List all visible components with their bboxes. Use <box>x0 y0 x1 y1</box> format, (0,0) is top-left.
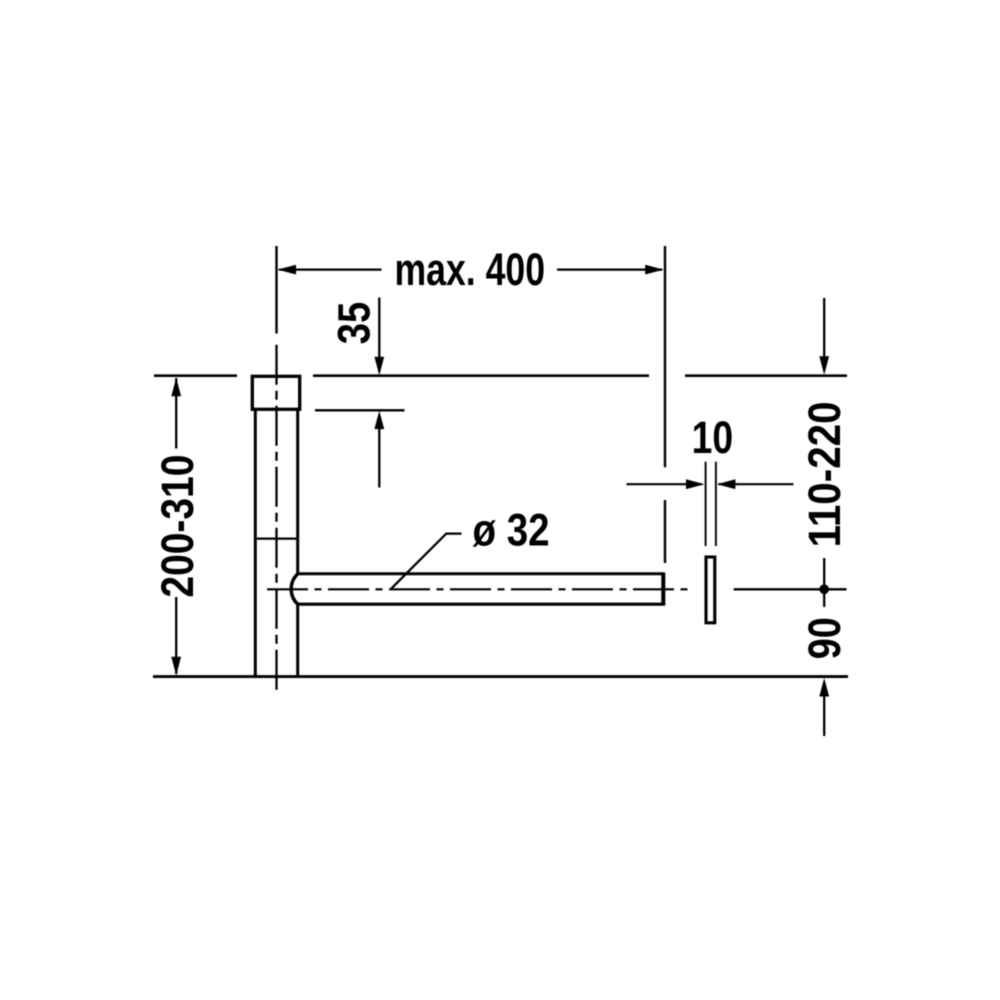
dimension max. 400 right extension line <box>664 246 666 467</box>
dimension 35 upper line and arrow <box>378 298 380 373</box>
dimension 10 extension lines <box>705 462 707 546</box>
dimension 10 line left with arrow <box>627 483 703 485</box>
horizontal pipe top edge <box>298 572 664 575</box>
arrow max400 right <box>645 265 664 275</box>
dimension 200-310 line lower part <box>175 597 177 674</box>
leader line for diameter 32 <box>391 534 461 589</box>
svg-text:90: 90 <box>799 617 850 659</box>
horizontal pipe right end cap <box>661 573 665 606</box>
extension line at cap bottom level <box>315 409 405 411</box>
reference dot at pipe centerline <box>819 584 829 594</box>
pipe joint line <box>255 537 297 539</box>
svg-text:max. 400: max. 400 <box>395 244 546 295</box>
vertical pipe right wall <box>296 409 299 574</box>
wall plate <box>706 557 715 623</box>
dimension 10 line right with arrow <box>719 483 794 485</box>
svg-text:110-220: 110-220 <box>799 401 850 547</box>
vertical pipe left wall <box>254 409 257 676</box>
dimension 35 lower arrow and tail <box>374 411 384 430</box>
arrow 200-310 top <box>171 378 181 397</box>
dimension 110-220 top line <box>823 298 825 371</box>
bottom reference line <box>153 675 848 678</box>
arrow 200-310 bottom <box>171 657 181 676</box>
svg-text:200-310: 200-310 <box>152 455 203 598</box>
horizontal connector line at pipe center <box>734 588 847 590</box>
dimension 200-310 line upper part <box>175 378 177 449</box>
wall reference line (top horizontal) <box>154 374 847 377</box>
svg-text:35: 35 <box>329 302 380 345</box>
arrow 110-220 down <box>819 356 829 375</box>
svg-text:10: 10 <box>692 412 734 463</box>
dimension 90 bottom arrow and tail <box>819 678 829 697</box>
dimension mid segment at pipe center <box>823 558 825 607</box>
arrow max400 left <box>277 265 296 275</box>
horizontal centerline of pipe (dash-dot) <box>267 588 690 590</box>
svg-text:ø 32: ø 32 <box>473 504 550 555</box>
vertical centerline of pipe (dash-dot) <box>275 246 277 334</box>
dimension line max. 400 <box>279 268 382 270</box>
pipe cap (upper wide fitting) <box>252 376 299 409</box>
horizontal pipe bottom edge <box>298 603 664 606</box>
socket fillet arc at pipe junction <box>291 574 298 604</box>
